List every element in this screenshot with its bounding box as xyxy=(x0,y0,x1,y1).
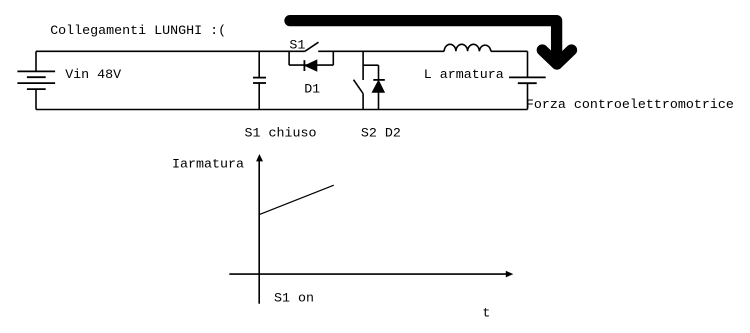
current-direction arrow head xyxy=(542,50,571,64)
svg-text:S1: S1 xyxy=(289,38,305,53)
svg-text:S1 chiuso: S1 chiuso xyxy=(245,127,317,142)
svg-text:D1: D1 xyxy=(304,83,320,98)
wire top to corner after inductor xyxy=(491,50,528,52)
inductor L armatura xyxy=(444,44,491,51)
svg-text:S2 D2: S2 D2 xyxy=(361,127,401,142)
wire right vertical lower xyxy=(527,83,529,109)
wire left vertical lower xyxy=(35,89,37,109)
svg-text:Forza controelettromotrice: Forza controelettromotrice xyxy=(526,98,734,113)
graph current ramp line xyxy=(259,185,334,214)
graph x-axis arrowhead xyxy=(506,271,514,278)
switch S1 blade xyxy=(305,42,319,51)
wire left vertical upper xyxy=(35,51,37,71)
graph y-axis xyxy=(258,159,260,304)
svg-text:Collegamenti LUNGHI :(: Collegamenti LUNGHI :( xyxy=(50,24,226,39)
switch S2 blade xyxy=(354,80,364,94)
svg-text:L armatura: L armatura xyxy=(424,68,504,83)
svg-text:Iarmatura: Iarmatura xyxy=(172,157,244,172)
diode D2 triangle xyxy=(372,81,384,93)
wire top right run xyxy=(318,50,444,52)
diode D2 branch wires xyxy=(363,65,378,109)
diode D1 cathode bar xyxy=(303,60,305,71)
wire bottom run xyxy=(36,109,528,111)
diode D1 branch wires xyxy=(289,51,333,65)
graph x-axis xyxy=(229,273,506,275)
switch S2 leg wires xyxy=(362,51,364,109)
svg-text:t: t xyxy=(482,307,490,322)
capacitor C1 plates xyxy=(253,78,266,83)
capacitor C1 leads xyxy=(258,51,260,109)
diode D2 cathode bar xyxy=(373,79,385,81)
wire right vertical upper xyxy=(527,51,529,77)
diode D1 triangle xyxy=(305,60,317,71)
battery E back-EMF plates xyxy=(509,77,546,83)
svg-text:Vin 48V: Vin 48V xyxy=(65,68,121,83)
current-direction arrow shaft xyxy=(290,21,557,57)
wire top left run xyxy=(36,50,305,52)
graph y-axis arrowhead xyxy=(256,154,263,161)
svg-text:S1 on: S1 on xyxy=(274,292,314,307)
battery V1 Vin 48V xyxy=(17,71,55,89)
